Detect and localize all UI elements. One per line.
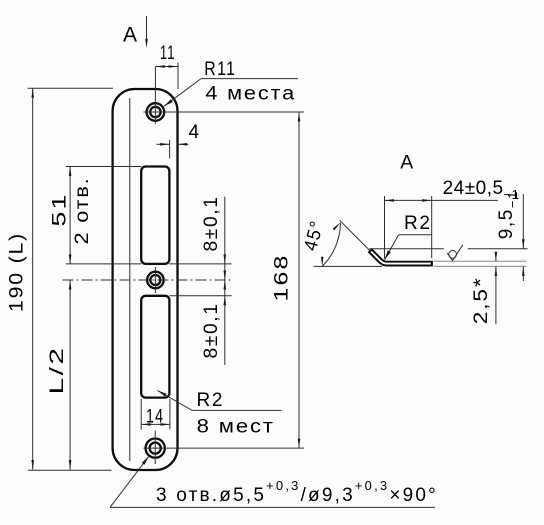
dim 168 line bbox=[298, 112, 300, 448]
svg-text:2,5*: 2,5* bbox=[471, 276, 492, 324]
lower slot bbox=[141, 296, 169, 398]
45 deg arc bbox=[322, 223, 340, 267]
plate outline (front view) bbox=[113, 89, 178, 470]
bottom hole vertical centerline bbox=[154, 431, 156, 465]
svg-text:4 места: 4 места bbox=[205, 84, 296, 105]
svg-text:R2: R2 bbox=[197, 390, 225, 411]
45 deg reference line bbox=[340, 220, 371, 251]
top hole vertical centerline bbox=[154, 67, 156, 124]
svg-text:R11: R11 bbox=[204, 59, 236, 80]
svg-text:8±0,1: 8±0,1 bbox=[201, 196, 222, 252]
leader for hole note bbox=[110, 456, 149, 507]
center horizontal dash-dot centerline bbox=[63, 279, 233, 281]
upper slot bbox=[141, 167, 169, 264]
dim 4 extension bbox=[169, 140, 171, 159]
svg-text:45°: 45° bbox=[300, 218, 328, 253]
slot top extension bbox=[66, 166, 141, 168]
svg-text:8 мест: 8 мест bbox=[197, 416, 275, 437]
baseline bbox=[314, 265, 383, 267]
section cut arrow bbox=[146, 16, 148, 41]
svg-text:168: 168 bbox=[272, 254, 293, 302]
dim line vertical bbox=[224, 197, 226, 365]
svg-text:2 отв.: 2 отв. bbox=[72, 177, 93, 245]
bottom surface extension bbox=[434, 265, 527, 267]
svg-text:3 отв.ø5,5+0,3/ø9,3+0,3×90°: 3 отв.ø5,5+0,3/ø9,3+0,3×90° bbox=[156, 478, 438, 506]
svg-text:L/2: L/2 bbox=[47, 346, 68, 395]
center hole vertical centerline bbox=[154, 267, 156, 293]
dim 2,5 line bbox=[495, 253, 497, 262]
dim 4 lines bbox=[157, 143, 170, 145]
dim 11 right extension bbox=[177, 63, 179, 90]
top surface extension bbox=[434, 260, 527, 262]
bottom hole outer circle bbox=[146, 439, 165, 458]
leader R2 (section) bbox=[385, 235, 399, 260]
bottom hole horizontal centerline / 168 bottom extension bbox=[144, 447, 305, 449]
bottom hole inner circle bbox=[150, 443, 161, 454]
dim 14 extensions bbox=[140, 399, 142, 430]
lower slot top edge right extension bbox=[169, 295, 231, 297]
svg-text:A: A bbox=[400, 152, 413, 174]
top hole outer circle bbox=[147, 103, 165, 121]
dim 14 line bbox=[141, 423, 170, 425]
slot bottom edge right extension bbox=[169, 263, 231, 265]
bend line on plate face bbox=[129, 98, 131, 461]
top hole inner circle bbox=[150, 107, 160, 117]
dim 51 line bbox=[69, 167, 71, 264]
dim 8±0,1 arrows bbox=[224, 254, 227, 264]
lip tip extension line bbox=[370, 248, 444, 250]
dim L/2 line bbox=[69, 280, 71, 470]
svg-text:190 (L): 190 (L) bbox=[7, 232, 28, 312]
svg-text:11: 11 bbox=[160, 43, 176, 64]
leader R11 bbox=[164, 79, 201, 107]
top hole horizontal centerline / 168 top extension bbox=[144, 111, 305, 113]
bottom extension bbox=[28, 469, 112, 471]
leader R2 (slots) bbox=[158, 391, 193, 411]
dim 24 extension lines bbox=[384, 196, 386, 259]
svg-text:A: A bbox=[123, 24, 137, 47]
center hole outer circle bbox=[147, 272, 164, 289]
dim 11 line bbox=[155, 66, 178, 68]
center hole inner circle bbox=[150, 275, 160, 285]
dim 24 line arrows bbox=[385, 199, 395, 202]
svg-text:8±0,1: 8±0,1 bbox=[201, 303, 222, 359]
svg-text:R2: R2 bbox=[404, 213, 432, 234]
slot bottom extension left bbox=[66, 263, 141, 265]
svg-text:4: 4 bbox=[189, 122, 201, 143]
section profile bbox=[370, 250, 433, 264]
surface finish symbol bbox=[447, 245, 463, 261]
dim 9,5 line bbox=[522, 194, 524, 249]
top extension bbox=[28, 87, 114, 89]
svg-text:51: 51 bbox=[50, 193, 71, 227]
dim 190 line bbox=[32, 88, 34, 469]
